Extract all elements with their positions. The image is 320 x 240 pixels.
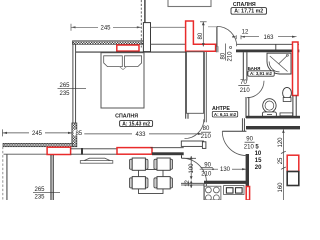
dimension 265/235 bottom-left xyxy=(33,187,60,200)
svg-text:210: 210 xyxy=(201,171,212,177)
svg-text:20: 20 xyxy=(255,165,262,171)
wall stub pier between windows xyxy=(81,148,83,155)
kitchen door leaf xyxy=(222,130,246,132)
window red bedroom1 bottom (wide) xyxy=(117,148,152,155)
dimension 70/210 (bathroom door) xyxy=(238,80,250,94)
chair top-left xyxy=(129,158,148,170)
wardrobe bedroom2 top xyxy=(168,0,211,7)
svg-text:210: 210 xyxy=(228,51,234,62)
wall top thin line right section xyxy=(237,43,299,45)
dimension 12 top (wall thickness) xyxy=(232,29,249,39)
dimension 130 xyxy=(200,167,247,173)
wall hall/bath divider upper xyxy=(243,52,247,80)
balcony dashed line top xyxy=(140,0,142,48)
dimension 245 top xyxy=(71,24,141,32)
svg-text:80: 80 xyxy=(198,32,204,39)
label box А: 6,11 m2 xyxy=(212,111,237,117)
duct wall next to bathroom xyxy=(242,118,244,131)
wall double-line bottom of bedroom1 xyxy=(71,149,117,154)
svg-text:100: 100 xyxy=(189,163,195,174)
kitchen right wall dark upper xyxy=(246,154,249,187)
dining table xyxy=(139,170,164,194)
shower cabin xyxy=(267,53,291,74)
svg-text:210: 210 xyxy=(201,134,212,140)
svg-text:15: 15 xyxy=(255,158,262,164)
svg-text:265: 265 xyxy=(59,83,70,89)
svg-text:25: 25 xyxy=(278,157,284,164)
door bathroom arc xyxy=(247,81,264,98)
hallway bottom wall xyxy=(246,126,300,129)
svg-text:70: 70 xyxy=(240,80,247,86)
kitchen sink double basin xyxy=(224,186,244,195)
door living-room arc xyxy=(182,158,206,183)
dimension 80/210 (bedroom1 door) xyxy=(201,126,212,140)
door bedroom2 handle circle xyxy=(230,46,232,48)
dimension 245 bottom xyxy=(3,129,73,137)
svg-text:БАНЯ: БАНЯ xyxy=(248,66,261,71)
svg-text:120: 120 xyxy=(278,137,284,148)
svg-text:235: 235 xyxy=(34,194,45,200)
balcony parapet vertical gray xyxy=(6,155,8,201)
balcony dashed edge bottom-left xyxy=(2,147,4,200)
bathroom bottom wall xyxy=(246,116,300,119)
window sill line bedroom1 top xyxy=(76,51,186,53)
window lines pier to red wall (balcony door) xyxy=(151,27,186,44)
chair bottom-right xyxy=(154,177,173,189)
svg-text:433: 433 xyxy=(135,132,146,138)
wall red L-shape (bedroom2 left) xyxy=(186,21,216,51)
dimension 80/210 rotated (bedroom2 door) xyxy=(220,44,233,62)
door bedroom2 arc xyxy=(217,26,237,46)
svg-text:245: 245 xyxy=(100,26,111,32)
dimension 163 xyxy=(241,35,297,41)
svg-text:10: 10 xyxy=(255,151,262,157)
wall thick band bedroom2/bath top xyxy=(236,50,299,53)
svg-text:245: 245 xyxy=(32,131,43,137)
svg-text:85: 85 xyxy=(75,131,82,137)
stove 4 burners xyxy=(204,186,221,201)
wall left exterior (bedroom1 left, double line) xyxy=(72,42,77,147)
dimension 85 xyxy=(74,130,85,137)
svg-text:90: 90 xyxy=(246,136,253,142)
svg-text:А: 17,71 m2: А: 17,71 m2 xyxy=(234,9,263,15)
balcony parapet line bottom-left xyxy=(4,153,48,155)
svg-text:130: 130 xyxy=(220,167,231,173)
dimension 433 xyxy=(84,132,202,138)
window red bottom-left xyxy=(47,147,71,154)
door bedroom2 jamb xyxy=(216,46,218,52)
dimension 12 (rotated, below door dim) xyxy=(185,179,193,188)
svg-text:163: 163 xyxy=(263,35,274,41)
dimension 90/210 (living door) xyxy=(201,162,213,177)
kitchen right wall red lower xyxy=(246,187,249,201)
svg-text:12: 12 xyxy=(242,29,249,35)
door bedroom1 leaf xyxy=(181,141,206,148)
wall living-room left vertical xyxy=(51,155,53,200)
chair top-right xyxy=(154,158,173,170)
svg-text:СПАЛНЯ: СПАЛНЯ xyxy=(115,114,138,120)
door bedroom2 leaf xyxy=(216,26,218,46)
svg-text:А: 15,43 m2: А: 15,43 m2 xyxy=(122,121,150,127)
svg-text:12: 12 xyxy=(185,179,191,186)
wall hatched top (bedroom1 top exterior wall) xyxy=(73,41,144,45)
door bedroom2 top line xyxy=(208,26,217,28)
wall right below red xyxy=(293,96,296,117)
label box А: 3,91 m2 xyxy=(248,71,274,76)
kitchen top wall xyxy=(204,181,249,184)
svg-text:210: 210 xyxy=(240,88,251,94)
wall tick on bedroom2 bottom wall xyxy=(275,44,277,49)
wall thin above pier xyxy=(144,0,146,23)
svg-text:А: 6,11 m2: А: 6,11 m2 xyxy=(214,112,237,117)
wall red right exterior (bathroom) xyxy=(293,42,299,96)
svg-text:210: 210 xyxy=(244,145,255,151)
toilet xyxy=(262,99,276,117)
dimension 90/210 + step numbers (kitchen door) xyxy=(244,136,262,171)
door living-room leaf xyxy=(181,183,205,185)
bed bedroom1 xyxy=(101,53,144,108)
dimension 265/235 mid-left xyxy=(58,83,87,97)
shelf trapezoid living room xyxy=(80,158,113,163)
bath sink oval xyxy=(283,87,292,101)
dimension chain right vertical xyxy=(278,130,286,201)
door bedroom1 arc xyxy=(185,119,204,138)
pier column xyxy=(143,23,150,52)
door kitchen arc xyxy=(222,131,246,155)
kitchen left wall xyxy=(204,184,206,200)
svg-text:А: 3,91 m2: А: 3,91 m2 xyxy=(250,71,273,76)
closet hallway xyxy=(187,52,207,123)
label box А: 17,71 m2 xyxy=(231,8,267,15)
svg-text:80: 80 xyxy=(203,126,210,132)
door living-room top jamb xyxy=(182,155,197,158)
svg-text:80: 80 xyxy=(220,52,226,59)
wall thick bedroom1 bottom / hall divider xyxy=(151,147,184,149)
label box А: 15,43 m2 xyxy=(120,121,153,128)
red box right edge xyxy=(287,155,299,171)
black box right edge xyxy=(287,172,299,186)
hallway left wall xyxy=(186,52,188,119)
dimension 100 door opening (rotated) xyxy=(189,156,195,180)
dimension 80 vertical (red wall) xyxy=(198,22,206,47)
radiator on bathroom bottom wall xyxy=(280,113,293,116)
wall hall/bath divider lower xyxy=(246,97,249,118)
wall hatched bottom-left exterior xyxy=(3,143,73,146)
window red top (red rect on wall) xyxy=(117,45,139,51)
svg-text:160: 160 xyxy=(278,182,284,193)
chair bottom-left xyxy=(129,177,148,189)
svg-text:235: 235 xyxy=(59,91,70,97)
